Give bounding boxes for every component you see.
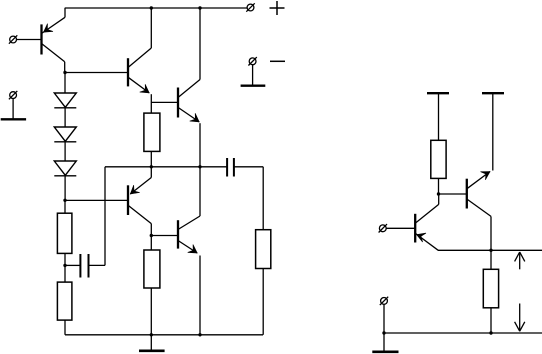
power rail symbol 2 — [482, 93, 504, 170]
wire bottom rail (right circuit) — [384, 332, 542, 334]
wire Q1 emitter riser — [64, 8, 66, 17]
wire D2-D3 — [64, 142, 66, 161]
label + (plus sign) — [270, 1, 285, 15]
transistor Q6 (NPN, emitter up) — [467, 172, 491, 217]
transistor Q2 (NPN) — [128, 48, 151, 93]
wire Q2 collector riser — [150, 8, 152, 48]
wire Q5 emitter drop — [199, 256, 201, 335]
label - (minus sign) — [270, 60, 285, 62]
resistor R6 — [431, 140, 446, 178]
node H (bottom rail x=200) — [198, 333, 201, 336]
wire Q4 emitter stub — [150, 167, 152, 178]
wire Q6 collector drop — [490, 216, 492, 250]
wire Q5 collector riser — [199, 167, 201, 216]
wire R6 to node J — [438, 178, 440, 194]
terminal common (bottom left, right circuit) — [380, 297, 388, 305]
wire node K to R7 — [490, 250, 492, 269]
wire mid horizontal line — [105, 166, 227, 168]
wire C2 to R5 branch — [234, 166, 263, 168]
node M (rail left end) — [382, 331, 385, 334]
wire V- to ground — [252, 65, 254, 86]
wire R7 to bottom rail — [490, 308, 492, 333]
ground (V-) — [241, 84, 266, 86]
ground (right circuit) — [372, 350, 398, 353]
diode D2 — [54, 127, 76, 142]
transistor Q1 (PNP) — [42, 17, 66, 62]
wire D3 to node B — [64, 176, 66, 201]
capacitor C1 — [80, 254, 88, 278]
resistor R7 — [483, 269, 498, 308]
node B (diode bottom / Q4 base / R1 top) — [63, 199, 66, 202]
wire R5 to bottom rail — [262, 269, 264, 335]
node K (output line x=491) — [489, 249, 492, 252]
node A (Q1 collector / Q2 base / diode top) — [63, 71, 66, 74]
wire bottom rail (left circuit) — [65, 334, 263, 336]
node J (R6 / Q6 base / Q7 collector) — [437, 192, 440, 195]
wire Q1 base — [17, 39, 42, 41]
wire node C to R2 — [64, 265, 66, 282]
wire node G to ground — [150, 335, 152, 351]
transistor Q4 (PNP) — [128, 178, 151, 224]
wire node B to Q4 base — [65, 199, 128, 201]
wire node B to R1 — [64, 200, 66, 213]
transistor Q5 (NPN) — [178, 216, 200, 253]
wire output line (Q7 emitter) — [438, 249, 542, 251]
resistor R3 — [144, 113, 160, 151]
wire D1-D2 — [64, 108, 66, 127]
resistor R2 — [57, 282, 72, 320]
wire Q3 collector riser — [199, 8, 201, 80]
node L (bottom rail x=491) — [489, 331, 492, 334]
node C (R1/R2/C1) — [63, 264, 66, 267]
wire Q2 emitter to Q3 base — [151, 101, 178, 103]
terminal input 2 — [9, 91, 17, 99]
terminal V+ — [246, 3, 254, 11]
wire riser x=263 down to R5 — [262, 167, 264, 230]
resistor R4 — [144, 250, 160, 288]
wire node A to D1 — [64, 73, 66, 94]
wire R2 to bottom rail — [64, 320, 66, 335]
wire Q4 collector drop — [150, 224, 152, 250]
terminal input (Q7 base) — [379, 224, 387, 232]
node G (bottom rail x=151) — [150, 333, 153, 336]
arrow down (return current) — [515, 304, 525, 332]
wire R4 to bottom rail — [150, 288, 152, 335]
wire Q3 emitter drop — [199, 123, 201, 167]
wire R3 to mid line — [150, 151, 152, 166]
terminal V- — [248, 57, 256, 65]
wire input2 to ground — [12, 99, 14, 120]
ground (input 2) — [1, 118, 26, 120]
wire R1 to node C — [64, 253, 66, 265]
wire Q1 collector drop — [64, 62, 66, 73]
wire Q7 base — [386, 227, 415, 229]
transistor Q3 (NPN) — [178, 80, 200, 122]
capacitor C2 — [227, 158, 234, 177]
wire top rail — [65, 7, 247, 9]
node top rail junction x=200 — [198, 6, 201, 9]
resistor R5 — [256, 230, 271, 269]
node D (mid line x=151) — [150, 165, 153, 168]
wire node J to Q6 base — [439, 193, 467, 195]
diode D3 — [54, 161, 76, 176]
resistor R1 — [57, 213, 72, 253]
node F (Q4 collector / Q5 base / R3b top) — [150, 234, 153, 237]
wire riser x=105 up to mid line — [104, 167, 106, 266]
arrow up (output current) — [515, 252, 525, 269]
node E (mid line x=200) — [198, 165, 201, 168]
diode D1 — [54, 93, 76, 108]
wire node F to Q5 base — [151, 235, 178, 237]
terminal input 1 (Q1 base) — [9, 35, 17, 43]
wire Q2 emitter drop — [150, 94, 152, 113]
node top rail junction x=151 — [150, 6, 153, 9]
power rail symbol 1 — [427, 93, 449, 140]
transistor Q7 (PNP) — [415, 194, 439, 250]
wire terminal to rail — [383, 304, 385, 333]
wire node M to ground — [383, 333, 385, 352]
ground (bottom mid) — [139, 349, 165, 352]
wire node A to Q2 base — [65, 72, 128, 74]
wire node C to C1 — [65, 264, 80, 266]
wire C1 right plate to riser — [89, 264, 106, 266]
